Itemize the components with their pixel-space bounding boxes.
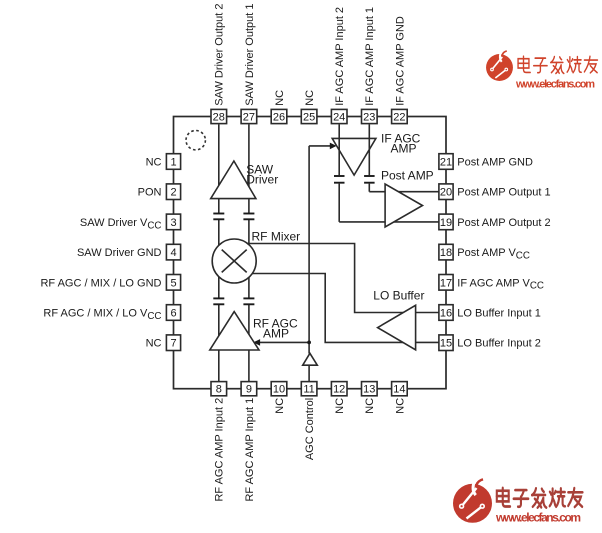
capacitor (below mixer, right x=248.9) [243,298,254,304]
wire: rail pin28 to pin8 (x=218.8) upper segment [218,124,220,213]
svg-text:LO Buffer Input 2: LO Buffer Input 2 [457,338,541,350]
mixer X [222,250,247,273]
svg-text:21: 21 [440,157,452,169]
wire: AGC to IF AGC amp gain input (horizontal arrow line) [309,145,332,147]
pin 7 box [166,335,180,351]
pin 24 box [331,109,347,123]
svg-text:14: 14 [393,384,405,396]
arrowhead into IF AGC amp [330,143,337,150]
bottom pin labels (rotated) [214,398,407,502]
svg-text:IF AGC AMP Input 1: IF AGC AMP Input 1 [364,7,376,106]
op-amp: RF AGC AMP triangle [210,312,259,350]
watermark bottom-right [453,479,583,524]
svg-text:17: 17 [440,277,452,289]
svg-text:NC: NC [394,398,406,414]
op-amp: Post AMP triangle [385,184,422,227]
svg-text:LO Buffer Input 1: LO Buffer Input 1 [457,308,541,320]
capacitor (SAW driver, left x=218.8) [213,214,224,220]
wire: rail x=218.8 mid segment [218,219,220,298]
wire: pin24 cap to pin19 route (vertical) [338,184,340,222]
pin 21 box [439,154,453,170]
wire: rail pin27 to pin9 (x=248.9) upper segment [248,124,250,213]
pin 23 box [362,109,378,123]
svg-text:Post AMP Output 1: Post AMP Output 1 [457,187,550,199]
svg-text:RF AGC / MIX / LO GND: RF AGC / MIX / LO GND [40,277,161,289]
svg-text:www.elecfans.com: www.elecfans.com [495,511,581,525]
svg-text:AMP: AMP [263,327,289,341]
svg-text:25: 25 [303,112,315,124]
svg-text:28: 28 [213,112,225,124]
pin 19 box [439,214,453,230]
wire: pin23 cap to pin20 route (vertical) [368,184,370,192]
wire: mixer LO port lower route to pin15 [252,274,439,343]
wire: AGC control rail (pin11 up to IF AGC corner) [308,365,310,383]
svg-text:RF AGC AMP Input 2: RF AGC AMP Input 2 [214,398,226,502]
svg-text:26: 26 [273,112,285,124]
svg-text:4: 4 [170,247,176,259]
pin 1 box [166,154,180,170]
pin 13 box [362,382,378,396]
mixer: RF Mixer circle [212,239,256,283]
pin 6 box [166,305,180,321]
svg-text:16: 16 [440,308,452,320]
svg-text:www.elecfans.com: www.elecfans.com [515,79,595,91]
wire: AGC to RF AGC amp gain input (horizontal arrow line) [259,341,310,343]
svg-text:22: 22 [393,112,405,124]
watermark top-right [486,51,597,91]
svg-text:AGC Control: AGC Control [304,398,316,460]
svg-text:RF AGC AMP Input 1: RF AGC AMP Input 1 [244,398,256,502]
junction dot on AGC rail [307,341,311,345]
svg-text:15: 15 [440,338,452,350]
svg-text:27: 27 [243,112,255,124]
svg-text:2: 2 [170,187,176,199]
arrowhead into RF AGC amp [253,339,260,346]
svg-text:SAW Driver Output 1: SAW Driver Output 1 [244,4,256,106]
svg-text:SAW Driver Output 2: SAW Driver Output 2 [214,4,226,106]
svg-text:IF AGC AMP GND: IF AGC AMP GND [394,16,406,106]
svg-text:6: 6 [170,308,176,320]
svg-text:11: 11 [303,384,314,396]
svg-text:IF AGC AMP Input 2: IF AGC AMP Input 2 [334,7,346,106]
svg-text:3: 3 [170,217,176,229]
pin 2 box [166,184,180,200]
pin 4 box [166,244,180,260]
buffer: AGC control input triangle [303,353,318,365]
pin 8 box [211,382,227,396]
svg-text:NC: NC [146,338,162,350]
svg-text:24: 24 [333,112,345,124]
pin 1 indicator dotted circle [186,131,205,150]
svg-text:10: 10 [273,384,285,396]
svg-text:8: 8 [216,384,222,396]
svg-text:Post AMP Output 2: Post AMP Output 2 [457,217,550,229]
svg-text:7: 7 [170,338,176,350]
pin numbers [170,112,452,396]
top pin labels (rotated) [214,4,407,106]
wire: route to pin19 (horizontal, behind Post AMP) [339,221,439,223]
svg-text:13: 13 [363,384,375,396]
svg-text:1: 1 [170,157,176,169]
svg-text:Driver: Driver [246,172,278,186]
svg-text:5: 5 [170,277,176,289]
wire: pin23 rail down to capacitor [368,124,370,175]
svg-text:NC: NC [146,157,162,169]
wire: pin24 rail down to capacitor [338,124,340,175]
pin 27 box [241,109,257,123]
capacitor (below mixer, left x=218.8) [213,298,224,304]
pin 10 box [271,382,287,396]
wire: rail x=248.9 lower segment [248,305,250,384]
right pin labels [457,157,550,350]
svg-text:20: 20 [440,187,452,199]
pin 18 box [439,244,453,260]
pin 20 box [439,184,453,200]
wire: route to pin20 (horizontal, behind Post AMP) [369,191,439,193]
svg-text:NC: NC [274,398,286,414]
svg-text:RF Mixer: RF Mixer [252,229,301,243]
pin 17 box [439,275,453,291]
IC outline (chip body) [174,117,447,389]
pin 12 box [331,382,347,396]
block labels [246,132,433,341]
pin 5 box [166,275,180,291]
wire: rail x=248.9 mid segment [248,219,250,298]
svg-text:18: 18 [440,247,452,259]
svg-text:AMP: AMP [391,142,417,156]
left pin labels [40,157,161,350]
svg-text:PON: PON [138,187,162,199]
svg-text:9: 9 [246,384,252,396]
svg-text:NC: NC [334,398,346,414]
pin 9 box [241,382,257,396]
pin 15 box [439,335,453,351]
pin 3 box [166,214,180,230]
op-amp: IF AGC AMP triangle (unfilled) [332,138,376,175]
op-amp: SAW Driver triangle [211,161,256,199]
capacitor (SAW driver, right x=248.9) [243,214,254,220]
svg-text:NC: NC [274,90,286,106]
pin 16 box [439,305,453,321]
svg-text:12: 12 [333,384,345,396]
wire: mixer LO port upper route to pin16 [248,244,440,313]
wire: rail x=218.8 lower segment [218,305,220,384]
svg-text:LO Buffer: LO Buffer [373,288,424,302]
pin 14 box [392,382,408,396]
pin 26 box [271,109,287,123]
pin 11 box [301,382,317,396]
svg-text:19: 19 [440,217,452,229]
capacitor (below IF AGC, left x=339.2) [334,176,345,183]
op-amp: LO Buffer triangle [378,305,416,350]
svg-text:NC: NC [364,398,376,414]
pin boxes [166,109,453,395]
capacitor (below IF AGC, right x=369.3) [364,176,375,183]
pin 28 box [211,109,227,123]
svg-text:NC: NC [304,90,316,106]
svg-text:Post AMP GND: Post AMP GND [457,157,533,169]
pin 25 box [301,109,317,123]
pin 22 box [392,109,408,123]
svg-text:Post AMP: Post AMP [381,168,434,182]
svg-text:23: 23 [363,112,375,124]
svg-text:SAW Driver GND: SAW Driver GND [77,247,162,259]
